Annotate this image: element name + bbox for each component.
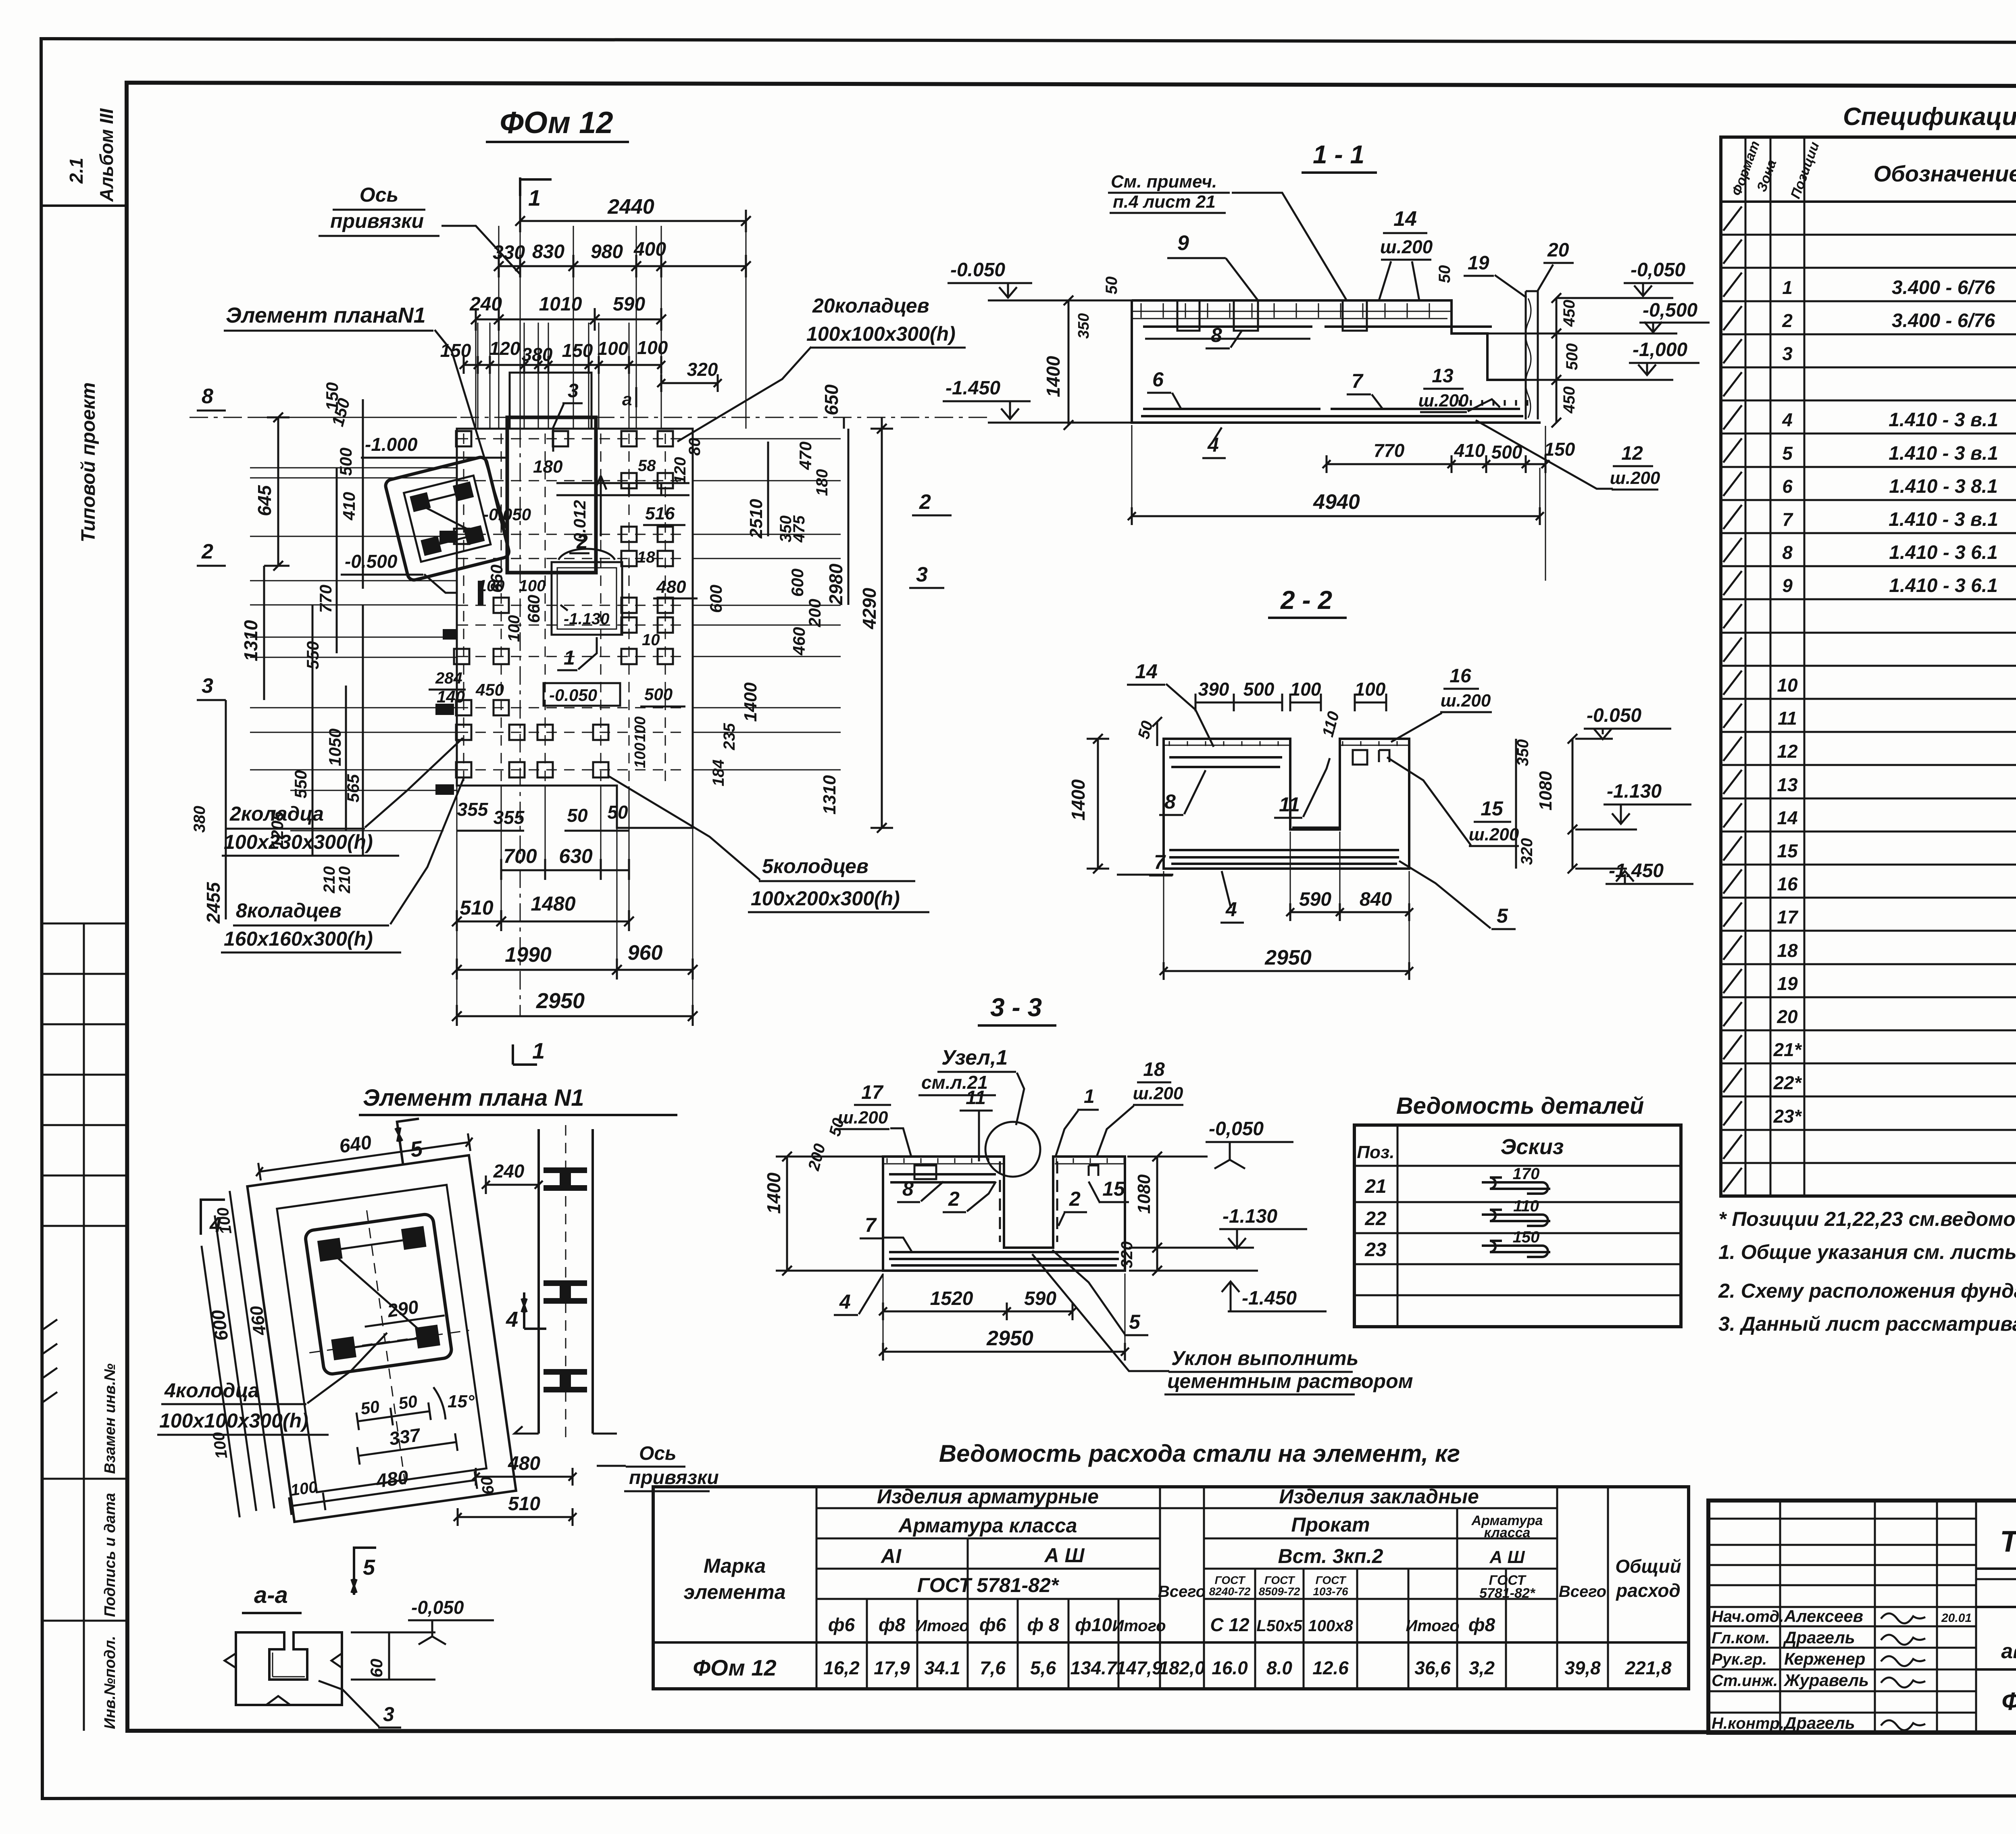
svg-text:Изделия арматурные: Изделия арматурные [877, 1485, 1099, 1508]
dims below 2-2 [1290, 911, 1409, 913]
svg-text:класса: класса [1484, 1525, 1531, 1540]
svg-text:1: 1 [1782, 277, 1793, 298]
svg-text:Керженер: Керженер [1784, 1649, 1865, 1668]
svg-text:58: 58 [638, 457, 656, 475]
svg-text:8.0: 8.0 [1266, 1657, 1292, 1678]
svg-text:660: 660 [524, 595, 543, 623]
left dim columns [277, 417, 279, 566]
svg-text:-1.450: -1.450 [946, 377, 1000, 399]
svg-text:0.012: 0.012 [570, 500, 589, 542]
svg-text:480: 480 [656, 577, 686, 597]
svg-text:150: 150 [440, 340, 471, 361]
vertical guide lines from top dims into plan [498, 226, 500, 429]
dim row 330 830 980 400 [499, 265, 746, 267]
svg-text:4: 4 [1207, 433, 1219, 456]
svg-text:20: 20 [1776, 1006, 1798, 1027]
svg-text:14: 14 [1777, 807, 1797, 828]
svg-text:100: 100 [214, 1206, 235, 1235]
svg-text:ф6: ф6 [979, 1614, 1006, 1635]
svg-text:-1.130: -1.130 [1223, 1206, 1277, 1227]
svg-text:цементным раствором: цементным раствором [1167, 1370, 1413, 1392]
svg-text:16,2: 16,2 [823, 1657, 860, 1678]
svg-text:Итого: Итого [1112, 1617, 1166, 1635]
svg-text:22*: 22* [1773, 1072, 1802, 1093]
svg-text:18: 18 [637, 548, 655, 566]
spec table frame [1721, 137, 2016, 1196]
svg-text:2950: 2950 [1264, 946, 1312, 969]
svg-text:100: 100 [632, 743, 649, 768]
svg-text:17,9: 17,9 [874, 1657, 910, 1678]
svg-text:16: 16 [1450, 665, 1471, 687]
svg-text:5781-82*: 5781-82* [1479, 1586, 1536, 1601]
svg-text:ГОСТ: ГОСТ [1316, 1574, 1347, 1586]
svg-text:134.7: 134.7 [1070, 1657, 1118, 1678]
svg-text:450: 450 [1560, 386, 1578, 414]
svg-text:3.400 - 6/76: 3.400 - 6/76 [1892, 277, 1995, 298]
small embed plates left edge [439, 531, 456, 543]
svg-text:ф6: ф6 [828, 1614, 855, 1635]
svg-text:ш.200: ш.200 [1441, 691, 1491, 711]
svg-text:1: 1 [528, 185, 541, 210]
svg-text:1520: 1520 [930, 1288, 973, 1309]
svg-text:4290: 4290 [859, 588, 880, 629]
svg-text:1 - 1: 1 - 1 [1313, 140, 1364, 169]
svg-text:1.410 - 3 в.1: 1.410 - 3 в.1 [1889, 443, 1998, 464]
svg-text:12: 12 [1777, 741, 1798, 762]
svg-text:12.6: 12.6 [1312, 1657, 1349, 1678]
svg-text:480: 480 [508, 1453, 540, 1474]
bottom dims 1-1 [1327, 463, 1545, 465]
svg-text:11: 11 [1778, 708, 1797, 729]
vertical extension lines below plan [456, 786, 458, 1016]
svg-text:3: 3 [916, 563, 928, 586]
svg-text:-0.500: -0.500 [345, 551, 398, 572]
4940 dim [1132, 515, 1540, 517]
svg-text:2 - 2: 2 - 2 [1280, 586, 1332, 615]
svg-text:ФОм 12: ФОм 12 [500, 106, 613, 140]
svg-text:320: 320 [1118, 1241, 1136, 1268]
svg-text:410: 410 [339, 492, 358, 521]
svg-text:2. Схему расположения фундаме: 2. Схему расположения фундаментов см.лис… [1718, 1280, 2016, 1302]
svg-text:240: 240 [469, 294, 502, 315]
svg-text:460: 460 [246, 1305, 270, 1337]
svg-text:Обозначение: Обозначение [1874, 161, 2016, 186]
svg-text:2980: 2980 [825, 563, 846, 605]
extra plan guides [520, 226, 521, 1016]
svg-text:17: 17 [861, 1082, 884, 1103]
svg-text:1400: 1400 [1043, 356, 1064, 397]
svg-text:18: 18 [1777, 940, 1798, 961]
svg-text:Изделия закладные: Изделия закладные [1279, 1485, 1479, 1508]
spec table rows [1721, 234, 2016, 236]
svg-text:350: 350 [1075, 313, 1092, 339]
svg-text:8509-72: 8509-72 [1259, 1585, 1300, 1598]
wells grid [456, 431, 471, 446]
svg-text:8коладцев: 8коладцев [236, 899, 342, 922]
svg-text:Итого: Итого [915, 1617, 969, 1635]
svg-text:ГОСТ: ГОСТ [1264, 1574, 1296, 1586]
svg-text:50: 50 [1103, 277, 1120, 295]
svg-text:1310: 1310 [240, 620, 261, 661]
dim row 150 120 380 150 100 100 [464, 364, 661, 366]
svg-text:Алексеев: Алексеев [1784, 1607, 1863, 1626]
svg-text:2: 2 [1782, 310, 1793, 331]
svg-text:565: 565 [344, 774, 362, 802]
svg-text:120: 120 [671, 457, 689, 484]
svg-text:100: 100 [478, 577, 505, 595]
svg-text:-1.450: -1.450 [1609, 860, 1664, 882]
svg-text:2: 2 [201, 540, 213, 563]
svg-text:Драгель: Драгель [1783, 1628, 1855, 1647]
element N1 dim lines (in rotated frame) [230, 1191, 275, 1508]
svg-text:а: а [622, 390, 632, 409]
svg-text:1990: 1990 [505, 943, 552, 967]
svg-text:Вст. 3кп.2: Вст. 3кп.2 [1278, 1545, 1383, 1567]
a-a channel profile [236, 1632, 342, 1705]
svg-text:1. Общие указания см. листы: 1. Общие указания см. листы 9.13 . [1718, 1241, 2016, 1263]
svg-text:1050: 1050 [325, 729, 344, 766]
svg-text:50: 50 [607, 802, 628, 823]
svg-text:320: 320 [1518, 838, 1536, 865]
svg-text:1400: 1400 [1068, 779, 1089, 821]
svg-text:17: 17 [1777, 907, 1799, 927]
svg-text:1080: 1080 [1134, 1174, 1154, 1214]
svg-text:960: 960 [628, 941, 663, 965]
section 3-3 body [883, 1157, 1125, 1271]
svg-text:100: 100 [637, 337, 668, 358]
title block frame [1708, 1501, 2016, 1733]
svg-text:п.4 лист 21: п.4 лист 21 [1113, 192, 1216, 212]
svg-text:Гл.ком.: Гл.ком. [1712, 1629, 1770, 1647]
section mark 5 bottom [352, 1546, 376, 1595]
svg-text:а-а: а-а [254, 1582, 288, 1608]
svg-text:ш.200: ш.200 [1380, 236, 1433, 257]
svg-text:5: 5 [1782, 443, 1793, 464]
svg-text:8: 8 [1164, 790, 1176, 813]
vedomost detaley table [1354, 1125, 1681, 1327]
svg-text:590: 590 [1024, 1288, 1056, 1309]
svg-text:11: 11 [1279, 793, 1300, 816]
svg-text:630: 630 [559, 845, 593, 867]
svg-text:10: 10 [1777, 675, 1798, 696]
svg-text:-0.050: -0.050 [1587, 705, 1641, 726]
section mark 4 right [522, 1292, 546, 1329]
svg-text:3: 3 [383, 1703, 394, 1726]
svg-text:Ст.инж.: Ст.инж. [1712, 1672, 1778, 1690]
svg-text:-0.050: -0.050 [950, 259, 1005, 281]
svg-text:1.410 - 3 6.1: 1.410 - 3 6.1 [1889, 575, 1998, 596]
svg-text:элемента: элемента [683, 1581, 785, 1603]
svg-text:4940: 4940 [1313, 490, 1360, 514]
svg-text:8: 8 [202, 385, 213, 408]
svg-text:7,6: 7,6 [980, 1657, 1006, 1678]
svg-text:13: 13 [1432, 365, 1454, 387]
svg-text:450: 450 [475, 680, 504, 699]
svg-text:390: 390 [1198, 679, 1229, 700]
1400 vertical dim [1068, 300, 1070, 425]
svg-text:2950: 2950 [536, 989, 585, 1013]
svg-text:ГОСТ 5781-82*: ГОСТ 5781-82* [917, 1574, 1060, 1596]
svg-text:* Позиции 21,22,23 см.ведомост: * Позиции 21,22,23 см.ведомость деталей … [1718, 1208, 2016, 1230]
svg-text:410: 410 [1454, 440, 1485, 461]
svg-text:16.0: 16.0 [1212, 1657, 1248, 1678]
svg-text:700: 700 [503, 845, 537, 867]
svg-text:6: 6 [1782, 476, 1793, 497]
callout 2 above trench [558, 549, 615, 560]
svg-text:Журавель: Журавель [1783, 1671, 1869, 1690]
svg-text:15: 15 [1481, 797, 1504, 820]
svg-text:600: 600 [207, 1309, 232, 1342]
svg-text:50: 50 [567, 805, 588, 826]
svg-text:ш.200: ш.200 [1133, 1084, 1183, 1103]
svg-text:Типовой проект: Типовой проект [78, 382, 99, 542]
section mark 4 left [201, 1198, 225, 1235]
svg-text:16: 16 [1777, 873, 1798, 894]
svg-text:-0.050: -0.050 [549, 686, 597, 704]
svg-text:50: 50 [359, 1397, 381, 1418]
svg-text:650: 650 [821, 384, 842, 415]
margin hatch ticks [41, 1319, 57, 1403]
svg-text:3: 3 [568, 380, 579, 402]
svg-text:19: 19 [1468, 252, 1489, 274]
element N1 tilted body [170, 1111, 522, 1532]
hook sketch 23 [1482, 1246, 1548, 1257]
svg-text:100х230х300(h): 100х230х300(h) [224, 831, 373, 853]
svg-text:5: 5 [1129, 1311, 1141, 1333]
svg-text:120: 120 [489, 338, 521, 359]
svg-text:2440: 2440 [607, 195, 654, 219]
svg-text:Ось: Ось [360, 183, 398, 206]
svg-text:-1.000: -1.000 [365, 434, 418, 455]
svg-text:Арматура класса: Арматура класса [898, 1514, 1077, 1537]
svg-text:3: 3 [1782, 343, 1793, 364]
svg-text:18: 18 [1143, 1059, 1165, 1080]
svg-text:500: 500 [1563, 343, 1581, 370]
wall strip right of element [539, 1129, 593, 1434]
svg-text:355: 355 [457, 799, 489, 820]
svg-text:210: 210 [336, 866, 354, 894]
svg-text:100: 100 [289, 1478, 319, 1499]
corridor opening above [510, 373, 591, 429]
svg-text:221,8: 221,8 [1624, 1657, 1672, 1678]
svg-text:160х160х300(h): 160х160х300(h) [224, 927, 373, 950]
svg-text:Подпись и дата: Подпись и дата [102, 1493, 119, 1617]
svg-text:11: 11 [966, 1087, 986, 1109]
svg-text:290: 290 [386, 1296, 420, 1321]
svg-text:20: 20 [1547, 240, 1569, 261]
svg-text:Общий: Общий [1615, 1556, 1681, 1577]
vertical dims 2-2 [1097, 739, 1099, 869]
svg-text:182,0: 182,0 [1158, 1657, 1205, 1678]
svg-text:770: 770 [316, 585, 335, 613]
svg-text:ТП 405-7- 4.86: ТП 405-7- 4.86 [2000, 1525, 2016, 1558]
svg-text:-0,050: -0,050 [1631, 259, 1685, 281]
svg-text:2455: 2455 [203, 882, 224, 924]
svg-text:Н.контр.: Н.контр. [1712, 1715, 1784, 1732]
svg-text:ш.200: ш.200 [1469, 825, 1519, 844]
svg-text:13: 13 [1777, 774, 1798, 795]
section mark 5 top [394, 1117, 425, 1165]
svg-text:1400: 1400 [763, 1172, 784, 1214]
svg-text:1: 1 [1084, 1086, 1095, 1107]
section cut line 1 vertical [519, 177, 521, 214]
svg-text:Спецификация фундамента ФОм 12: Спецификация фундамента ФОм 12 [1843, 103, 2016, 131]
svg-text:284: 284 [435, 669, 462, 687]
svg-text:1480: 1480 [531, 892, 575, 915]
svg-text:7: 7 [1782, 509, 1793, 530]
svg-text:2510: 2510 [746, 499, 766, 539]
svg-text:180: 180 [533, 457, 563, 477]
svg-text:1310: 1310 [820, 775, 839, 815]
svg-text:4: 4 [1225, 898, 1237, 921]
svg-text:50: 50 [397, 1392, 419, 1413]
svg-text:100х8: 100х8 [1308, 1617, 1353, 1635]
svg-text:8: 8 [1211, 324, 1222, 346]
svg-text:14: 14 [1393, 207, 1417, 231]
svg-text:645: 645 [254, 485, 275, 516]
svg-text:100х200х300(h): 100х200х300(h) [751, 887, 900, 910]
svg-text:20коладцев: 20коладцев [812, 294, 929, 317]
svg-text:Инв.№подл.: Инв.№подл. [102, 1636, 119, 1729]
svg-text:15: 15 [1102, 1178, 1125, 1200]
svg-text:1.410 - 3 6.1: 1.410 - 3 6.1 [1889, 542, 1998, 563]
svg-text:4: 4 [506, 1307, 518, 1332]
svg-text:6: 6 [1152, 368, 1164, 391]
svg-text:-0,500: -0,500 [1643, 300, 1697, 321]
svg-text:600: 600 [788, 569, 807, 597]
inner trench rect with -1.130 [552, 562, 622, 635]
svg-text:23: 23 [1364, 1239, 1387, 1261]
svg-text:2: 2 [919, 490, 931, 514]
svg-text:7: 7 [1154, 851, 1166, 873]
svg-text:3 - 3: 3 - 3 [990, 993, 1042, 1022]
svg-text:Ведомость расхода стали на эл: Ведомость расхода стали на элемент, кг [939, 1440, 1460, 1467]
well column axes [463, 433, 464, 782]
svg-text:510: 510 [460, 896, 494, 919]
svg-text:355: 355 [494, 807, 525, 828]
svg-text:5: 5 [1497, 904, 1508, 927]
svg-text:2: 2 [948, 1188, 960, 1210]
svg-text:380: 380 [191, 806, 208, 833]
dims below 3-3 [883, 1311, 1073, 1313]
svg-text:4: 4 [839, 1290, 851, 1313]
svg-text:14: 14 [1135, 660, 1158, 683]
svg-text:500: 500 [644, 685, 673, 704]
svg-text:840: 840 [1360, 889, 1392, 910]
svg-text:600: 600 [706, 585, 725, 613]
svg-text:150: 150 [1513, 1228, 1540, 1246]
svg-text:Марка: Марка [704, 1555, 766, 1577]
svg-text:8: 8 [902, 1178, 914, 1200]
svg-text:320: 320 [687, 359, 718, 380]
svg-text:2.1: 2.1 [66, 158, 87, 184]
svg-text:ф 8: ф 8 [1027, 1614, 1059, 1635]
well row axes [458, 438, 685, 440]
svg-text:15: 15 [1777, 840, 1798, 861]
svg-text:510: 510 [508, 1493, 540, 1515]
svg-text:Ось: Ось [639, 1443, 677, 1464]
svg-text:240: 240 [493, 1161, 525, 1182]
svg-text:7: 7 [1352, 370, 1364, 392]
svg-text:ш.200: ш.200 [1610, 468, 1660, 488]
svg-text:привязки: привязки [330, 210, 424, 232]
svg-text:3.400 - 6/76: 3.400 - 6/76 [1892, 310, 1995, 331]
svg-text:100: 100 [519, 577, 546, 595]
svg-text:1080: 1080 [1536, 771, 1556, 811]
svg-text:Эскиз: Эскиз [1501, 1135, 1564, 1159]
svg-text:Драгель: Драгель [1783, 1713, 1855, 1732]
svg-text:100: 100 [632, 717, 649, 742]
svg-text:Ведомость деталей: Ведомость деталей [1396, 1093, 1644, 1119]
svg-text:ГОСТ: ГОСТ [1215, 1574, 1246, 1586]
svg-text:ш.200: ш.200 [1418, 391, 1469, 411]
svg-text:L50х5: L50х5 [1256, 1617, 1302, 1635]
top mesh band [1132, 311, 1452, 319]
svg-text:590: 590 [1299, 889, 1331, 910]
tilted anchor element on plan [384, 456, 510, 581]
svg-text:480: 480 [375, 1467, 410, 1492]
svg-text:-1,000: -1,000 [1633, 339, 1687, 361]
svg-text:2коладца: 2коладца [229, 802, 324, 825]
top beam band on plan [556, 483, 689, 495]
svg-text:Поз.: Поз. [1357, 1142, 1394, 1162]
svg-text:170: 170 [1513, 1165, 1540, 1183]
svg-text:103-76: 103-76 [1313, 1585, 1348, 1598]
svg-text:12: 12 [1621, 443, 1643, 464]
svg-text:Всего: Всего [1158, 1583, 1206, 1601]
svg-text:1.410 - 3 8.1: 1.410 - 3 8.1 [1889, 476, 1998, 497]
bottom rebar 1-1 [1141, 409, 1523, 416]
svg-text:1.410 - 3 в.1: 1.410 - 3 в.1 [1889, 409, 1998, 431]
svg-text:-1.130: -1.130 [1607, 781, 1662, 802]
svg-text:3: 3 [202, 674, 213, 698]
svg-text:1400: 1400 [741, 682, 760, 722]
svg-text:1: 1 [532, 1038, 545, 1063]
boxed -0.050 on plan [544, 683, 620, 706]
svg-text:привязки: привязки [629, 1467, 719, 1488]
svg-text:Фундамент ФОм12: Фундамент ФОм12 [2001, 1688, 2016, 1715]
svg-text:110: 110 [1513, 1197, 1539, 1215]
svg-text:60: 60 [478, 1476, 498, 1496]
section 1-1 body [1132, 300, 1526, 380]
svg-text:Прокат: Прокат [1291, 1513, 1370, 1536]
svg-text:Элемент плана N1: Элемент плана N1 [363, 1085, 584, 1111]
svg-text:Всего: Всего [1559, 1583, 1606, 1601]
svg-text:См. примеч.: См. примеч. [1111, 172, 1217, 192]
svg-text:200: 200 [805, 599, 824, 627]
svg-text:34.1: 34.1 [924, 1657, 960, 1678]
svg-text:980: 980 [591, 241, 623, 263]
svg-text:100х100х300(h): 100х100х300(h) [159, 1409, 308, 1432]
mesh bands 2-2 [1164, 745, 1409, 746]
svg-text:19: 19 [1777, 973, 1798, 994]
svg-text:100: 100 [1290, 679, 1321, 700]
svg-text:Элемент планаN1: Элемент планаN1 [226, 303, 426, 327]
svg-text:Уклон выполнить: Уклон выполнить [1171, 1347, 1358, 1369]
right dim columns [843, 417, 845, 429]
section 2-2 body [1164, 739, 1409, 869]
svg-text:расход: расход [1615, 1580, 1681, 1601]
svg-text:-0,050: -0,050 [1209, 1118, 1264, 1140]
svg-text:С 12: С 12 [1210, 1614, 1250, 1635]
svg-text:235: 235 [721, 723, 738, 750]
svg-text:450: 450 [1560, 300, 1578, 327]
svg-text:9: 9 [1177, 231, 1189, 255]
svg-text:21*: 21* [1773, 1039, 1802, 1060]
steel table frame [653, 1487, 1689, 1689]
svg-text:Рук.гр.: Рук.гр. [1712, 1651, 1767, 1668]
svg-text:500: 500 [1243, 679, 1275, 700]
